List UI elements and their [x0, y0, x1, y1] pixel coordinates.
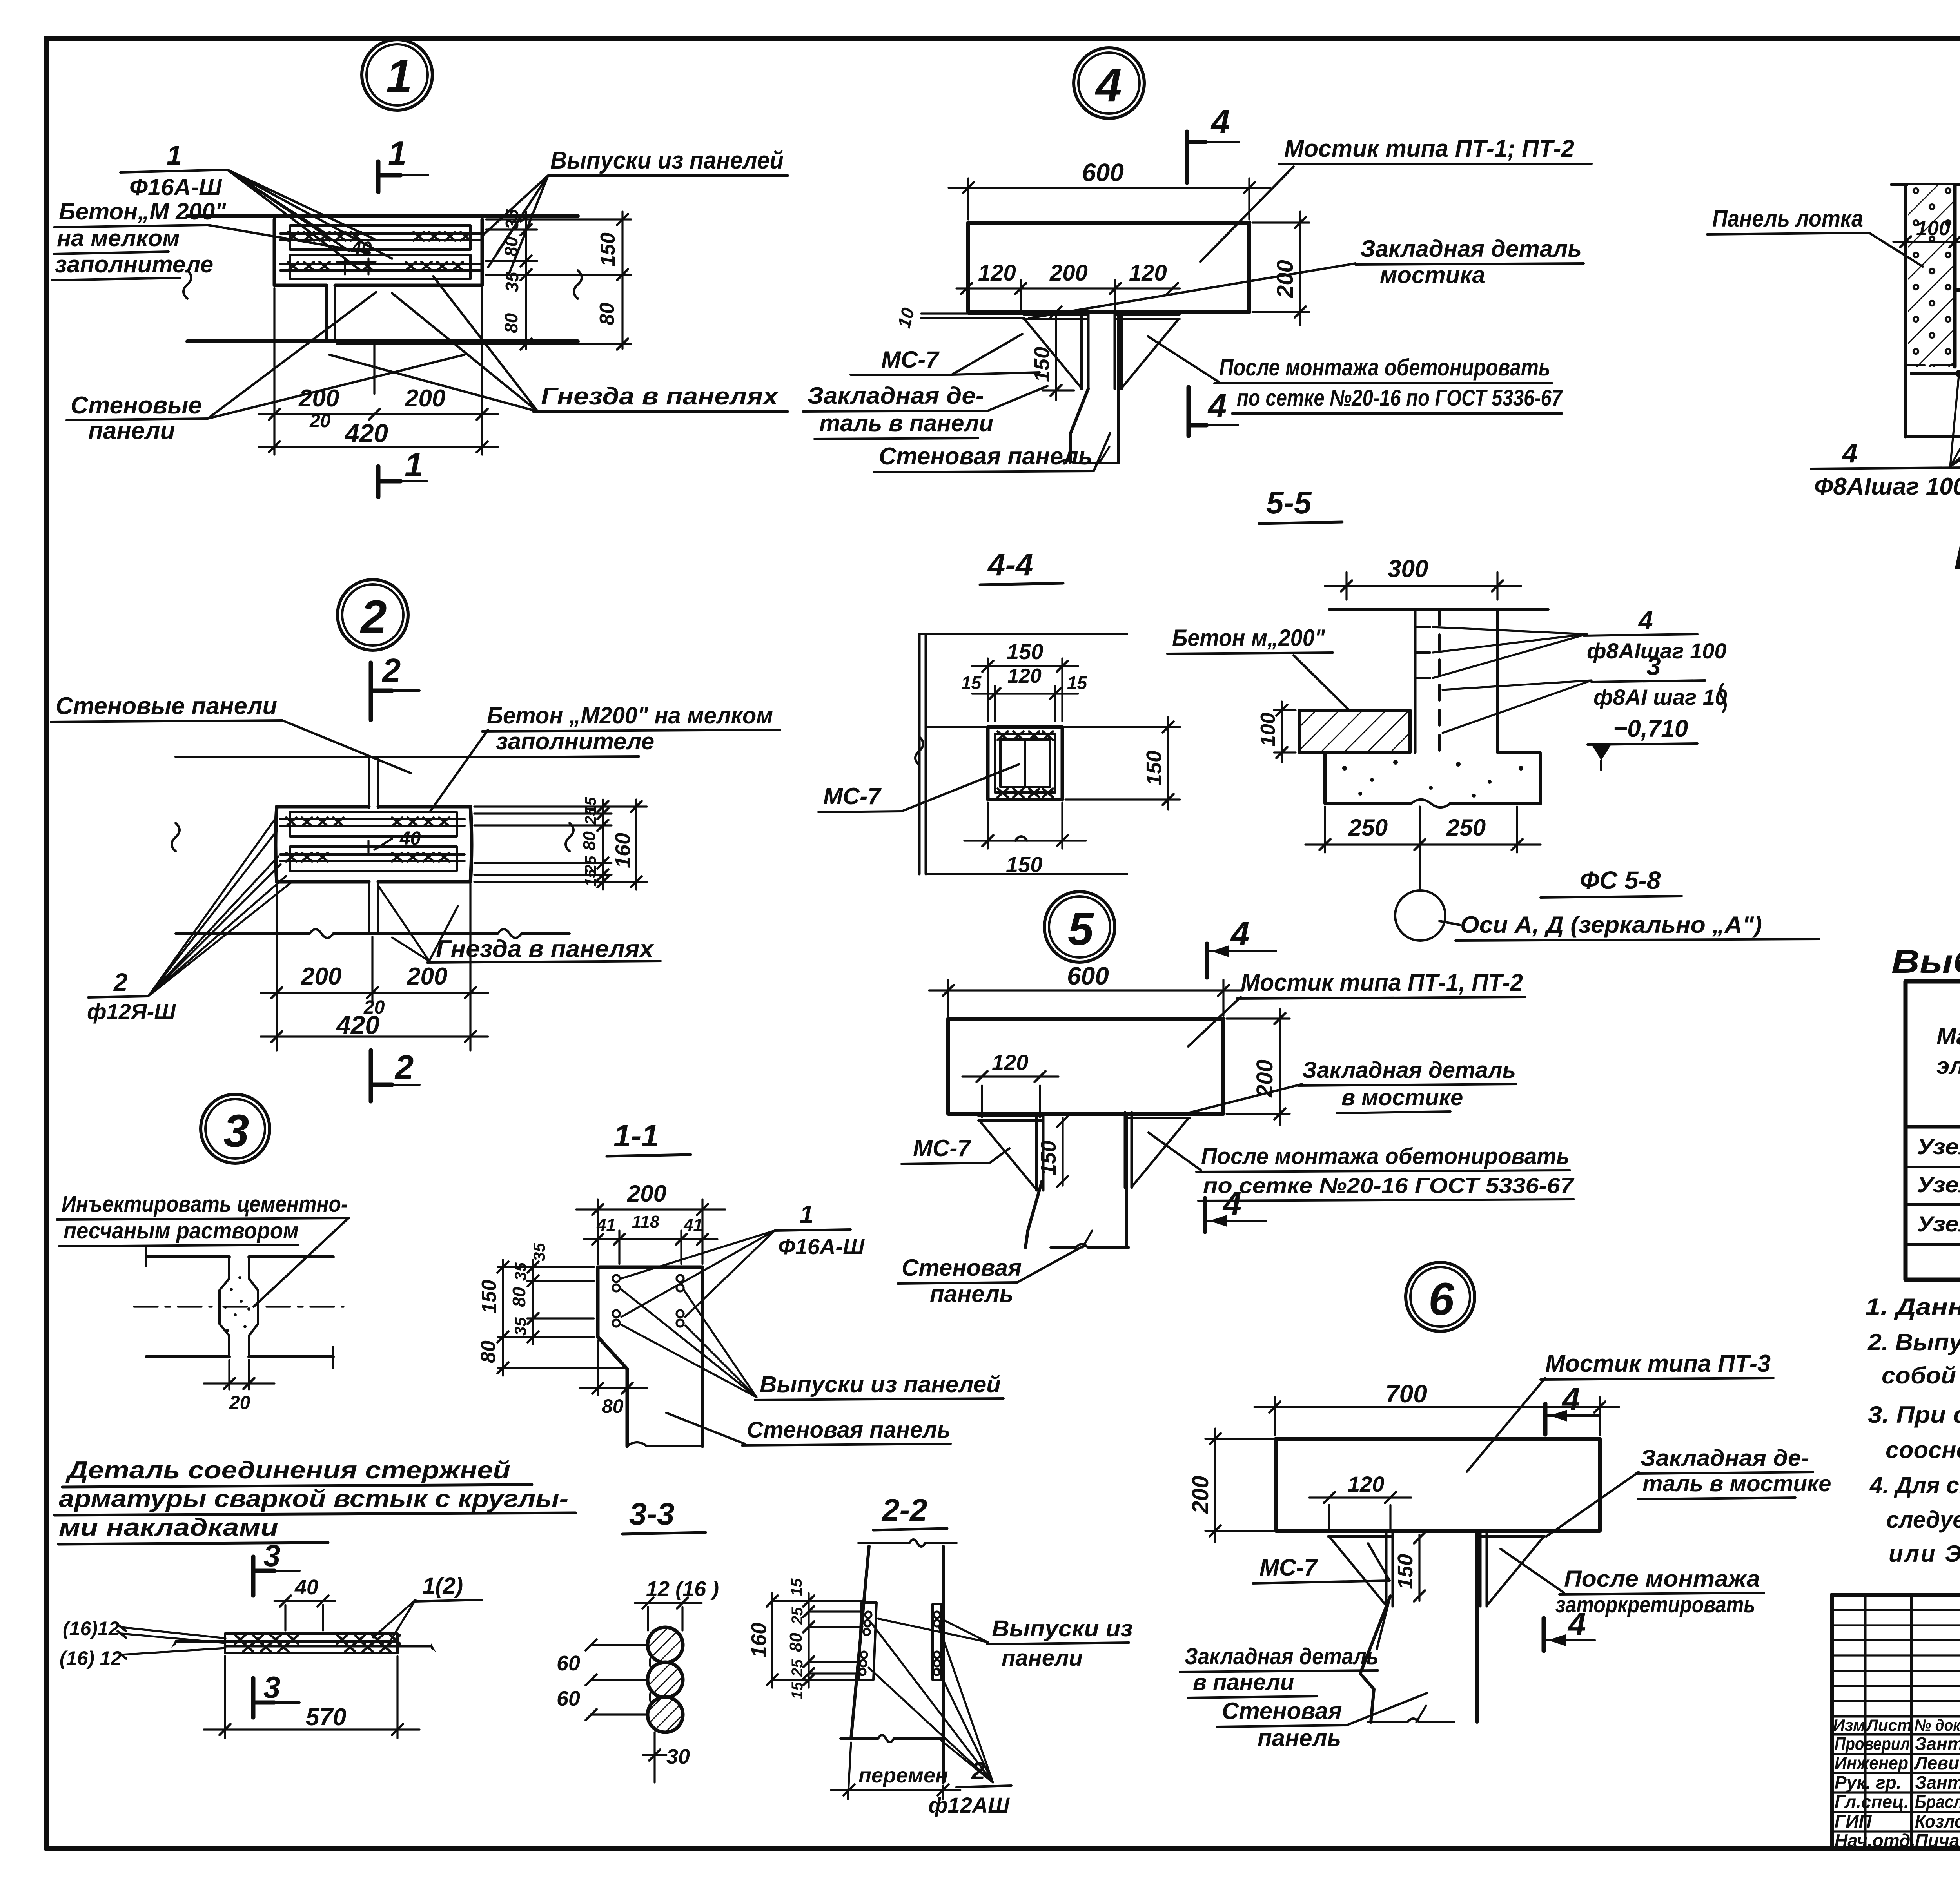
svg-text:Ф16А-Ш: Ф16А-Ш — [778, 1234, 865, 1259]
section mark 4 bottom — [1187, 387, 1191, 436]
svg-text:Браславский: Браславский — [1915, 1791, 1960, 1812]
svg-text:80: 80 — [509, 1287, 529, 1307]
svg-text:3: 3 — [263, 1670, 280, 1704]
10 plate dim at left — [921, 314, 967, 318]
svg-text:Выпуски из панелей: Выпуски из панелей — [760, 1372, 1001, 1397]
60 60 dims — [591, 1645, 648, 1715]
svg-text:После монтажа: После монтажа — [1564, 1566, 1760, 1592]
svg-text:160: 160 — [611, 833, 635, 868]
svg-text:420: 420 — [344, 419, 388, 448]
rectangle — [1276, 1439, 1600, 1531]
200 dim — [598, 1199, 702, 1264]
svg-text:4: 4 — [1561, 1382, 1580, 1417]
svg-text:2: 2 — [381, 652, 401, 689]
svg-text:Стеновые: Стеновые — [71, 392, 202, 419]
svg-text:Бетон м„200": Бетон м„200" — [1172, 625, 1325, 651]
svg-text:Закладная де-: Закладная де- — [1641, 1445, 1809, 1471]
svg-text:песчаным раствором: песчаным раствором — [64, 1218, 299, 1244]
bottom dims — [277, 884, 470, 1050]
dims above square — [988, 658, 1062, 721]
150 stem dim — [1055, 316, 1057, 400]
svg-text:15: 15 — [582, 869, 599, 887]
svg-text:4: 4 — [1842, 438, 1858, 468]
svg-text:Зантберг: Зантберг — [1915, 1733, 1960, 1754]
panel edges — [851, 1546, 869, 1739]
svg-text:Лист: Лист — [1866, 1716, 1912, 1734]
svg-text:Гнезда в панелях: Гнезда в панелях — [541, 383, 779, 410]
embedded plates — [858, 1603, 877, 1680]
brackets — [1328, 1531, 1393, 1606]
svg-text:60: 60 — [557, 1687, 580, 1710]
600 dim — [968, 178, 1249, 219]
svg-text:Закладная деталь: Закладная деталь — [1185, 1644, 1379, 1669]
three hatched circles — [648, 1627, 683, 1663]
svg-text:3. При соединении стержней с: 3. При соединении стержней сваркой необх… — [1868, 1402, 1960, 1428]
svg-text:40: 40 — [350, 238, 372, 259]
svg-text:3: 3 — [263, 1538, 280, 1573]
svg-text:ф12Я-Ш: ф12Я-Ш — [87, 999, 176, 1024]
svg-text:150: 150 — [597, 232, 619, 267]
svg-text:5: 5 — [1068, 903, 1094, 955]
bottom line with wave — [840, 1737, 945, 1740]
svg-text:420: 420 — [336, 1010, 379, 1039]
svg-text:100: 100 — [1916, 217, 1950, 240]
left dims — [498, 1267, 624, 1368]
svg-text:250: 250 — [1348, 814, 1388, 841]
wall lines — [919, 634, 926, 874]
svg-text:Закладная де-: Закладная де- — [808, 383, 984, 409]
svg-text:600: 600 — [1067, 962, 1109, 990]
svg-text:МС-7: МС-7 — [823, 783, 882, 809]
svg-text:35: 35 — [502, 271, 522, 292]
svg-text:на мелком: на мелком — [57, 225, 180, 251]
120 200 120 dims inside — [1021, 280, 1115, 314]
svg-text:(16) 12: (16) 12 — [60, 1647, 122, 1669]
svg-text:120: 120 — [1348, 1472, 1384, 1496]
svg-text:МС-7: МС-7 — [1259, 1554, 1318, 1581]
svg-text:100: 100 — [1257, 713, 1279, 747]
name rows — [1832, 1754, 1960, 1831]
svg-text:160: 160 — [747, 1623, 771, 1658]
panel drawing — [187, 214, 578, 218]
node bubble 3 — [201, 1094, 270, 1163]
big rectangle — [968, 223, 1249, 312]
svg-text:25: 25 — [582, 807, 599, 825]
120 dim — [1329, 1505, 1390, 1529]
svg-text:41: 41 — [596, 1215, 616, 1235]
svg-text:следует применять электроды: следует применять электроды типа Э42А-ф … — [1886, 1507, 1960, 1533]
svg-text:по сетке №20-16 ГОСТ 5336-67: по сетке №20-16 ГОСТ 5336-67 — [1203, 1173, 1575, 1198]
svg-text:Стеновая панель: Стеновая панель — [879, 443, 1093, 470]
svg-text:Выпуски из: Выпуски из — [992, 1616, 1133, 1641]
bottom section mark 2 — [369, 1050, 373, 1101]
svg-text:Ф8АIшаг 100: Ф8АIшаг 100 — [1814, 473, 1960, 500]
svg-text:Бетон„М 200": Бетон„М 200" — [59, 198, 227, 225]
svg-text:МС-7: МС-7 — [881, 346, 940, 373]
svg-text:Узел 2: Узел 2 — [1917, 1172, 1960, 1197]
svg-text:150: 150 — [1030, 347, 1054, 382]
svg-text:80: 80 — [786, 1633, 806, 1652]
svg-text:в мостике: в мостике — [1341, 1085, 1463, 1110]
section mark 4 top — [1205, 944, 1209, 977]
svg-text:панели: панели — [88, 417, 175, 444]
svg-text:60: 60 — [557, 1652, 580, 1675]
svg-text:15: 15 — [961, 673, 982, 693]
300 dim — [1347, 572, 1497, 600]
svg-text:ФС 5-8: ФС 5-8 — [1580, 866, 1661, 894]
svg-text:Деталь соединения стержней: Деталь соединения стержней — [65, 1457, 510, 1484]
svg-text:(16)12: (16)12 — [63, 1617, 120, 1639]
bottom section mark — [376, 466, 381, 497]
svg-text:120: 120 — [978, 260, 1016, 286]
svg-text:Гнезда в панелях: Гнезда в панелях — [436, 936, 655, 963]
wall — [1329, 608, 1548, 611]
svg-text:Стеновые панели: Стеновые панели — [56, 693, 277, 720]
svg-text:15: 15 — [788, 1578, 805, 1596]
svg-text:Закладная деталь: Закладная деталь — [1302, 1057, 1516, 1083]
wall stem — [1025, 1181, 1042, 1247]
svg-text:150: 150 — [1394, 1554, 1417, 1589]
200 right dim — [1252, 223, 1309, 312]
svg-text:35: 35 — [511, 1317, 530, 1336]
svg-text:2: 2 — [394, 1049, 414, 1086]
svg-text:4: 4 — [1207, 388, 1227, 425]
svg-text:таль в панели: таль в панели — [819, 410, 993, 436]
section mark 4 bottom — [1203, 1198, 1207, 1232]
svg-text:150: 150 — [1007, 639, 1043, 664]
svg-text:панель: панель — [1258, 1725, 1341, 1751]
svg-text:20: 20 — [229, 1393, 250, 1413]
right 150 dim — [1065, 727, 1180, 800]
section mark 3 bottom — [251, 1678, 256, 1717]
svg-text:−0,710: −0,710 — [1613, 715, 1688, 742]
svg-text:1: 1 — [405, 446, 423, 484]
top line with break — [1891, 183, 1960, 186]
small rows top — [1832, 1610, 1960, 1701]
svg-text:150: 150 — [478, 1280, 501, 1314]
svg-text:Инъектировать цементно-: Инъектировать цементно- — [62, 1191, 348, 1217]
svg-text:200: 200 — [1188, 1476, 1213, 1514]
svg-text:Пичахчи: Пичахчи — [1915, 1830, 1960, 1851]
svg-text:150: 150 — [1006, 852, 1042, 877]
svg-text:120: 120 — [1007, 665, 1042, 687]
svg-text:1: 1 — [800, 1200, 814, 1228]
svg-text:200: 200 — [1272, 260, 1298, 298]
left wall panel (hatched) — [1908, 185, 1954, 367]
svg-text:Мостик типа ПТ-1, ПТ-2: Мостик типа ПТ-1, ПТ-2 — [1241, 969, 1523, 996]
svg-text:300: 300 — [1388, 555, 1428, 582]
panel block — [274, 219, 482, 285]
svg-text:200: 200 — [627, 1180, 666, 1207]
svg-text:1. Данный лист комплектен с: 1. Данный лист комплектен с листами кж- … — [1865, 1294, 1960, 1320]
svg-text:Выпуски из панелей: Выпуски из панелей — [550, 147, 784, 174]
svg-text:3: 3 — [223, 1105, 249, 1157]
svg-text:После монтажа обетонировать: После монтажа обетонировать — [1201, 1144, 1570, 1169]
svg-text:мостика: мостика — [1380, 262, 1485, 288]
700 dim — [1275, 1397, 1600, 1435]
svg-text:Зантберг: Зантберг — [1915, 1772, 1960, 1793]
svg-text:2: 2 — [113, 968, 128, 996]
svg-text:Стеновая: Стеновая — [1222, 1698, 1342, 1724]
svg-text:перемен: перемен — [858, 1764, 948, 1787]
svg-text:3-3: 3-3 — [629, 1496, 675, 1531]
svg-text:40: 40 — [294, 1576, 318, 1599]
panel profile — [598, 1267, 702, 1446]
rectangle — [948, 1019, 1223, 1114]
120 dim — [982, 1086, 1040, 1117]
svg-text:12 (16 ): 12 (16 ) — [646, 1577, 719, 1601]
svg-text:118: 118 — [632, 1212, 660, 1231]
svg-text:15: 15 — [1067, 673, 1088, 693]
41 118 41 dims — [619, 1231, 681, 1264]
svg-text:3: 3 — [1646, 651, 1661, 680]
svg-text:80: 80 — [580, 831, 599, 850]
svg-text:2. Выпуски арматуры стеновых: 2. Выпуски арматуры стеновых панелей сва… — [1867, 1329, 1960, 1355]
svg-text:4: 4 — [1567, 1607, 1586, 1642]
30 dim — [653, 1732, 655, 1782]
node bubble 1 — [362, 40, 432, 110]
svg-text:80: 80 — [602, 1395, 624, 1417]
svg-text:ГИП: ГИП — [1835, 1811, 1872, 1831]
wall stem — [1070, 389, 1088, 462]
svg-text:25: 25 — [789, 1607, 806, 1625]
left small table verticals — [1865, 1595, 1960, 1849]
node bubble 2 — [338, 580, 408, 650]
T-stem — [327, 285, 335, 341]
foundation block — [1325, 752, 1541, 803]
svg-text:2-2: 2-2 — [881, 1492, 927, 1527]
svg-text:1(2): 1(2) — [423, 1573, 463, 1599]
svg-text:4: 4 — [1095, 59, 1122, 111]
outer box — [1832, 1595, 1960, 1849]
section mark 4 bottom — [1542, 1618, 1546, 1651]
drawing: top line, stem, panel block, bottom line — [176, 756, 570, 758]
svg-text:панели: панели — [1002, 1645, 1083, 1671]
svg-text:После монтажа обетонировать: После монтажа обетонировать — [1219, 354, 1550, 381]
break squiggles — [183, 270, 191, 299]
section mark 4 top — [1543, 1404, 1548, 1434]
rebar bands with x marks — [280, 234, 480, 240]
svg-text:МС-7: МС-7 — [913, 1135, 971, 1161]
svg-text:2: 2 — [360, 591, 387, 643]
bottom rebar line with dots — [1911, 372, 1960, 375]
wall stem — [1360, 1596, 1390, 1722]
svg-text:250: 250 — [1446, 814, 1486, 841]
svg-text:в панели: в панели — [1193, 1670, 1294, 1695]
svg-text:соосность стыкуемых стержней: соосность стыкуемых стержней. — [1886, 1437, 1960, 1463]
node bubble 5 — [1044, 892, 1115, 962]
svg-text:собой накладками из арматурн: собой накладками из арматурных стержней … — [1882, 1362, 1960, 1389]
svg-text:Мостик типа ПТ-3: Мостик типа ПТ-3 — [1545, 1350, 1771, 1377]
channel bottom line — [1957, 288, 1960, 292]
svg-text:120: 120 — [992, 1050, 1028, 1075]
svg-text:по сетке №20-16 по ГОСТ 5336-6: по сетке №20-16 по ГОСТ 5336-67 — [1237, 385, 1563, 411]
svg-text:Оси А, Д (зеркально „А"): Оси А, Д (зеркально „А") — [1460, 912, 1762, 938]
svg-text:80: 80 — [501, 313, 521, 333]
svg-text:ф12АШ: ф12АШ — [928, 1793, 1010, 1817]
joint drawing — [146, 1255, 333, 1258]
svg-text:4: 4 — [1222, 1185, 1241, 1222]
svg-text:ми накладками: ми накладками — [59, 1514, 278, 1541]
bottom slab — [1906, 435, 1960, 438]
svg-text:Нач.отд.: Нач.отд. — [1835, 1830, 1915, 1851]
right dim chains — [337, 219, 631, 344]
100 rotated dim — [1274, 710, 1296, 752]
svg-text:600: 600 — [1082, 158, 1124, 187]
svg-text:Рук. гр.: Рук. гр. — [1835, 1772, 1902, 1793]
80 dim under chamfer — [598, 1340, 627, 1395]
200 right dim — [1227, 1019, 1290, 1114]
svg-text:Бетон „М200" на мелком: Бетон „М200" на мелком — [487, 702, 773, 729]
svg-text:Узел 1: Узел 1 — [1917, 1134, 1960, 1159]
svg-text:эл-та: эл-та — [1936, 1053, 1960, 1079]
svg-text:200: 200 — [1049, 260, 1088, 286]
svg-text:арматуры сваркой встык с кр: арматуры сваркой встык с круглы- — [59, 1485, 568, 1512]
dashed embed line — [1906, 364, 1960, 366]
svg-text:ф8АI шаг 10: ф8АI шаг 10 — [1593, 685, 1727, 709]
svg-text:Мостик типа ПТ-1; ПТ-2: Мостик типа ПТ-1; ПТ-2 — [1284, 135, 1574, 162]
svg-text:25: 25 — [789, 1659, 806, 1677]
svg-text:150: 150 — [1037, 1141, 1060, 1176]
svg-text:570: 570 — [306, 1704, 346, 1731]
node bubble 4 — [1074, 48, 1144, 118]
200 left dim — [1205, 1439, 1273, 1531]
bolts — [613, 1275, 684, 1327]
svg-text:40: 40 — [399, 828, 421, 849]
svg-text:панель: панель — [930, 1281, 1013, 1307]
svg-text:4. Для сварных соединений с: 4. Для сварных соединений стержней армат… — [1869, 1472, 1960, 1498]
20 dim — [229, 1360, 249, 1389]
svg-text:1: 1 — [388, 135, 407, 172]
node bubble 6 — [1406, 1262, 1475, 1331]
MC-7 box — [988, 727, 1062, 800]
svg-text:Ведомость стержней на один: Ведомость стержней на один элемент — [1954, 539, 1960, 576]
svg-text:41: 41 — [683, 1215, 703, 1235]
svg-text:200: 200 — [405, 385, 445, 412]
top line with wave — [858, 1542, 956, 1544]
svg-text:Панель лотка: Панель лотка — [1712, 205, 1863, 232]
svg-text:30: 30 — [666, 1745, 690, 1768]
svg-text:1: 1 — [386, 50, 412, 102]
svg-text:Закладная деталь: Закладная деталь — [1360, 236, 1582, 262]
svg-text:35: 35 — [502, 209, 522, 229]
svg-text:80: 80 — [501, 236, 521, 257]
svg-text:Выборка стали на один элем: Выборка стали на один элемент, кг — [1891, 943, 1960, 980]
svg-text:Марка: Марка — [1936, 1023, 1960, 1050]
svg-text:150: 150 — [1142, 751, 1166, 786]
svg-text:Гл.спец.: Гл.спец. — [1835, 1791, 1909, 1812]
svg-text:Ф16А-Ш: Ф16А-Ш — [129, 174, 222, 200]
right dim chains — [474, 807, 647, 882]
svg-text:4: 4 — [1230, 916, 1249, 953]
150 stem dim — [1062, 1118, 1063, 1186]
outer box — [1906, 981, 1960, 1280]
bottom dims — [274, 288, 482, 455]
peremen dim — [848, 1743, 943, 1799]
250 250 dims — [1325, 807, 1517, 852]
brackets — [978, 1115, 1043, 1190]
svg-text:Изм: Изм — [1833, 1716, 1865, 1734]
svg-text:4: 4 — [1638, 606, 1653, 635]
svg-text:1-1: 1-1 — [613, 1118, 659, 1153]
svg-text:Стеновая: Стеновая — [902, 1255, 1022, 1281]
svg-text:700: 700 — [1385, 1380, 1427, 1408]
svg-text:20: 20 — [309, 411, 331, 432]
section mark 2 top — [369, 663, 373, 720]
svg-text:Козловская: Козловская — [1915, 1811, 1960, 1831]
svg-text:Левина: Левина — [1914, 1753, 1960, 1773]
svg-text:120: 120 — [1129, 260, 1167, 286]
svg-text:200: 200 — [407, 963, 447, 990]
svg-text:35: 35 — [530, 1243, 548, 1261]
axis circle — [1419, 807, 1421, 890]
keyway — [220, 1257, 229, 1357]
svg-text:6: 6 — [1428, 1273, 1455, 1325]
150 dim — [1418, 1535, 1420, 1601]
svg-text:15: 15 — [789, 1682, 806, 1699]
svg-text:№ документа: № документа — [1915, 1716, 1960, 1734]
section mark 4 top — [1185, 132, 1189, 183]
svg-text:Инженер: Инженер — [1835, 1753, 1908, 1773]
section mark 3 top — [251, 1557, 256, 1596]
svg-text:Узел 7: Узел 7 — [1917, 1211, 1960, 1236]
svg-text:или Э55-ф.: или Э55-ф. — [1889, 1541, 1960, 1567]
brackets — [968, 314, 1024, 318]
bottom 150 dim — [988, 803, 1062, 849]
section mark 1 top — [376, 161, 381, 192]
joint bars — [225, 1634, 397, 1653]
svg-text:35: 35 — [511, 1262, 530, 1281]
svg-text:Проверил: Проверил — [1835, 1733, 1910, 1754]
left dims — [772, 1601, 862, 1680]
svg-text:4-4: 4-4 — [987, 547, 1033, 582]
svg-text:200: 200 — [301, 963, 341, 990]
svg-text:1: 1 — [167, 140, 182, 170]
600 dim — [948, 980, 1223, 1016]
svg-text:4: 4 — [1210, 103, 1230, 141]
svg-text:5-5: 5-5 — [1266, 485, 1312, 520]
svg-text:200: 200 — [298, 385, 339, 412]
svg-text:заполнителе: заполнителе — [496, 728, 654, 754]
left hatched slab — [1299, 710, 1410, 752]
svg-text:таль в мостике: таль в мостике — [1642, 1471, 1831, 1496]
svg-text:Стеновая панель: Стеновая панель — [747, 1417, 951, 1443]
svg-text:80: 80 — [477, 1340, 500, 1363]
svg-text:80: 80 — [596, 303, 619, 325]
